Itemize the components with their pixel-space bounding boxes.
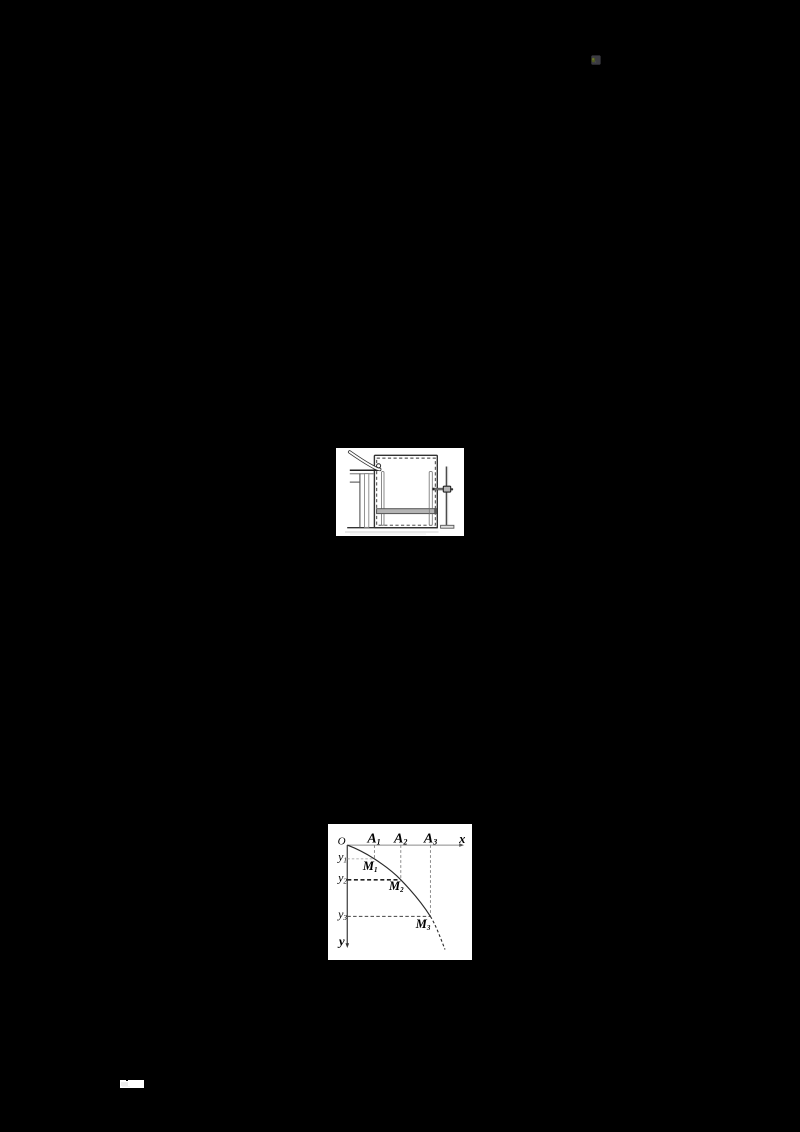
svg-text:y2: y2: [337, 870, 347, 885]
dashed vertical A3: [429, 845, 431, 916]
svg-text:x: x: [458, 831, 465, 845]
clamp knob: [451, 488, 453, 490]
svg-text:y1: y1: [337, 849, 347, 864]
ball at ramp end: [377, 464, 381, 468]
chamber dashed inner border: [377, 458, 436, 525]
svg-text:M1: M1: [362, 859, 378, 874]
left post: [382, 472, 385, 526]
dashed horizontal y1: [347, 857, 374, 859]
stand rod: [447, 467, 449, 526]
table leg (dark): [359, 474, 361, 528]
svg-text:y: y: [337, 933, 345, 948]
clamp rod: [433, 488, 444, 490]
y-axis: [346, 845, 348, 944]
curved launch ramp: [350, 452, 380, 469]
table under edge: [350, 473, 374, 475]
ground line: [347, 527, 438, 529]
trajectory curve dashed tail: [430, 916, 445, 949]
stand base: [441, 525, 454, 528]
dashed vertical A1: [373, 845, 375, 859]
svg-text:A1: A1: [366, 831, 380, 846]
svg-text:M3: M3: [415, 916, 431, 931]
small white label bottom-left: [120, 1080, 144, 1088]
x-axis: [347, 844, 461, 846]
svg-text:A3: A3: [423, 831, 437, 846]
dashed vertical A2: [400, 845, 402, 880]
svg-text:y3: y3: [337, 906, 347, 921]
svg-text:O: O: [338, 835, 346, 847]
svg-text:A2: A2: [393, 831, 407, 846]
table side line: [350, 481, 360, 483]
table top: [350, 469, 380, 471]
right post: [429, 472, 432, 526]
plate end cap: [434, 508, 436, 514]
trajectory curve solid: [347, 845, 430, 916]
gray plate: [377, 509, 437, 514]
figure 1 white panel: apparatus: [336, 448, 464, 536]
floor shadow: [345, 531, 439, 533]
clamp body: [443, 486, 450, 492]
figure 2 white panel: trajectory graph: [328, 824, 472, 960]
chamber frame (solid box): [374, 455, 437, 527]
table leg (outlined bar): [365, 474, 369, 528]
tiny icon top-right: [589, 53, 603, 67]
dashed horizontal y3: [347, 915, 430, 917]
dashed horizontal y2 (bold): [347, 878, 401, 880]
